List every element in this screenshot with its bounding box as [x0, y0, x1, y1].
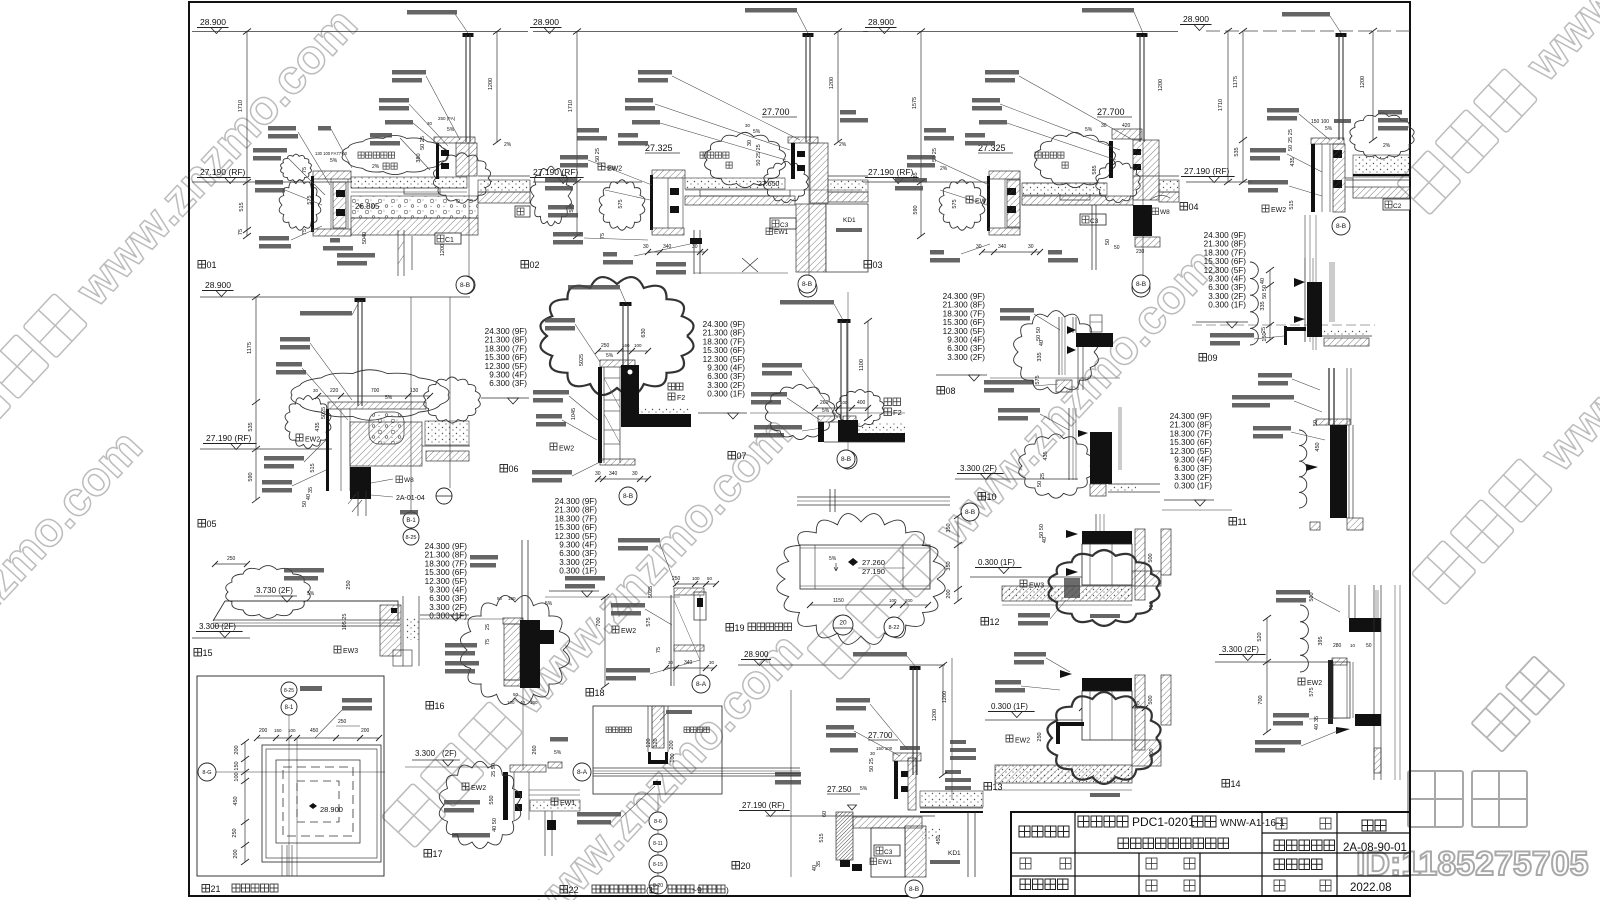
svg-text:WNW-A1-16-1: WNW-A1-16-1 [1220, 818, 1285, 829]
svg-text:09: 09 [1208, 353, 1218, 363]
svg-text:18.300 (7F): 18.300 (7F) [555, 514, 598, 523]
svg-text:8-B: 8-B [802, 281, 812, 288]
svg-text:28.900: 28.900 [320, 805, 343, 814]
svg-text:18.300 (7F): 18.300 (7F) [1204, 248, 1247, 257]
svg-text:6.300 (3F): 6.300 (3F) [559, 549, 597, 558]
svg-text:8-G: 8-G [202, 770, 211, 776]
svg-text:40: 40 [1042, 537, 1048, 543]
svg-text:700: 700 [1258, 695, 1264, 704]
svg-text:8-B: 8-B [841, 456, 851, 463]
svg-text:28.900: 28.900 [200, 17, 226, 27]
svg-text:150: 150 [274, 728, 282, 733]
svg-text:12.300 (5F): 12.300 (5F) [485, 362, 528, 371]
svg-text:3.300 (2F): 3.300 (2F) [559, 558, 597, 567]
svg-text:535: 535 [248, 422, 254, 431]
svg-text:435: 435 [1290, 157, 1296, 166]
svg-text:130: 130 [410, 388, 419, 394]
svg-text:50 50: 50 50 [1036, 327, 1042, 341]
svg-text:700: 700 [371, 388, 380, 394]
svg-text:KD1: KD1 [948, 850, 961, 857]
svg-text:24.300 (9F): 24.300 (9F) [425, 542, 468, 551]
svg-text:1710: 1710 [238, 100, 244, 112]
svg-text:30: 30 [668, 660, 674, 665]
svg-text:26.805: 26.805 [355, 202, 380, 211]
svg-text:28.900: 28.900 [1183, 14, 1209, 24]
svg-text:3.300 (2F): 3.300 (2F) [707, 381, 745, 390]
svg-text:335: 335 [1037, 352, 1043, 361]
svg-text:100: 100 [507, 700, 515, 705]
svg-text:50: 50 [707, 576, 713, 581]
svg-text:1175: 1175 [247, 342, 253, 354]
svg-text:0.300 (1F): 0.300 (1F) [991, 702, 1028, 711]
svg-text:02: 02 [530, 260, 540, 270]
svg-text:28.900: 28.900 [744, 650, 769, 659]
svg-text:EW2: EW2 [305, 437, 320, 444]
svg-text:W8: W8 [1160, 209, 1170, 216]
svg-text:PDC1-0201: PDC1-0201 [1132, 815, 1195, 829]
svg-text:27.190 (RF): 27.190 (RF) [533, 167, 579, 177]
svg-text:0.300 (1F): 0.300 (1F) [978, 558, 1015, 567]
svg-text:250: 250 [601, 343, 610, 349]
svg-text:): ) [726, 885, 729, 895]
svg-text:5%: 5% [606, 353, 614, 359]
svg-text:15.300 (6F): 15.300 (6F) [943, 318, 986, 327]
svg-text:8-B: 8-B [623, 493, 633, 500]
svg-text:515: 515 [310, 463, 316, 472]
svg-text:15.300 (6F): 15.300 (6F) [1204, 257, 1247, 266]
svg-text:515: 515 [1289, 200, 1295, 209]
svg-text:6.300 (3F): 6.300 (3F) [489, 379, 527, 388]
svg-text:280: 280 [1333, 643, 1342, 649]
svg-text:400: 400 [857, 400, 866, 406]
svg-text:250: 250 [232, 828, 238, 837]
svg-text:5%: 5% [1085, 127, 1093, 133]
svg-text:250: 250 [227, 556, 236, 562]
svg-text:3.300 (2F): 3.300 (2F) [960, 464, 997, 473]
svg-text:1100: 1100 [859, 359, 865, 371]
svg-text:40: 40 [1314, 724, 1320, 730]
svg-text:EW2: EW2 [471, 785, 486, 792]
svg-text:220: 220 [330, 388, 339, 394]
svg-text:24.300 (9F): 24.300 (9F) [555, 497, 598, 506]
svg-text:27.190 (RF): 27.190 (RF) [742, 801, 785, 810]
svg-text:24.300 (9F): 24.300 (9F) [485, 327, 528, 336]
svg-text:575: 575 [1035, 375, 1041, 384]
svg-text:5%: 5% [829, 556, 837, 562]
svg-text:0.300 (1F): 0.300 (1F) [1174, 482, 1212, 491]
svg-text:9.300 (4F): 9.300 (4F) [429, 586, 467, 595]
svg-text:340: 340 [998, 244, 1007, 250]
svg-text:50: 50 [1366, 643, 1372, 649]
svg-text:6.300 (3F): 6.300 (3F) [1208, 283, 1246, 292]
svg-text:07: 07 [737, 451, 747, 461]
svg-text:19: 19 [735, 623, 745, 633]
svg-text:50: 50 [1114, 245, 1120, 251]
svg-text:28.900: 28.900 [868, 17, 894, 27]
svg-text:EW1: EW1 [878, 859, 892, 866]
svg-text:515: 515 [819, 833, 825, 842]
svg-text:40: 40 [306, 494, 312, 500]
svg-text:03: 03 [873, 260, 883, 270]
svg-text:60: 60 [822, 811, 828, 817]
svg-text:590: 590 [248, 472, 254, 481]
svg-text:0.300 (1F): 0.300 (1F) [707, 390, 745, 399]
svg-text:200: 200 [361, 728, 370, 734]
svg-text:2%: 2% [839, 142, 847, 148]
svg-text:20: 20 [839, 620, 847, 627]
svg-text:150 100: 150 100 [876, 746, 893, 751]
svg-text:3.300 (2F): 3.300 (2F) [1174, 473, 1212, 482]
svg-text:35: 35 [308, 487, 314, 493]
svg-text:75: 75 [238, 229, 244, 235]
svg-text:12.300 (5F): 12.300 (5F) [1170, 447, 1213, 456]
svg-text:9.300 (4F): 9.300 (4F) [1174, 456, 1212, 465]
svg-text:50 25: 50 25 [869, 758, 875, 772]
svg-text:(1: (1 [646, 885, 654, 895]
svg-text:22: 22 [569, 885, 579, 895]
svg-text:3.300 (2F): 3.300 (2F) [1222, 645, 1259, 654]
svg-text:500: 500 [1148, 695, 1154, 704]
svg-text:28.900: 28.900 [205, 280, 231, 290]
svg-text:200: 200 [259, 728, 268, 734]
svg-text:1200: 1200 [1158, 79, 1164, 91]
svg-text:EW2: EW2 [975, 199, 990, 206]
svg-text:630: 630 [641, 328, 647, 337]
svg-text:150: 150 [234, 761, 240, 770]
svg-text:9.300 (4F): 9.300 (4F) [489, 371, 527, 380]
svg-text:8-B: 8-B [965, 509, 975, 516]
svg-text:10: 10 [1350, 643, 1356, 648]
svg-text:585: 585 [1092, 165, 1098, 174]
svg-text:F2: F2 [677, 395, 685, 402]
svg-text:27.700: 27.700 [868, 731, 893, 740]
svg-text:18.300 (7F): 18.300 (7F) [703, 337, 746, 346]
svg-text:30: 30 [745, 123, 751, 128]
svg-text:KD1: KD1 [843, 217, 856, 224]
svg-text:16: 16 [435, 701, 445, 711]
svg-text:EW2: EW2 [559, 446, 574, 453]
svg-text:500: 500 [1148, 553, 1154, 562]
svg-text:590: 590 [913, 205, 919, 214]
svg-text:75: 75 [600, 233, 606, 239]
svg-text:0.300 (1F): 0.300 (1F) [1208, 301, 1246, 310]
svg-text:520: 520 [1257, 632, 1263, 641]
svg-text:3.300 (2F): 3.300 (2F) [947, 353, 985, 362]
svg-text:27.250: 27.250 [827, 785, 852, 794]
svg-text:350: 350 [946, 561, 952, 570]
svg-text:250: 250 [346, 580, 352, 589]
svg-text:2A-08-90-01: 2A-08-90-01 [1343, 842, 1407, 854]
svg-text:C3: C3 [884, 849, 893, 856]
svg-text:8-25: 8-25 [405, 535, 416, 541]
svg-text:130 100 FA77 60: 130 100 FA77 60 [315, 151, 348, 156]
svg-text:50: 50 [302, 501, 308, 507]
svg-text:250: 250 [1037, 732, 1043, 741]
svg-text:435: 435 [1043, 451, 1049, 460]
svg-text:450: 450 [233, 796, 239, 805]
svg-text:120: 120 [653, 738, 659, 747]
svg-text:50: 50 [1105, 239, 1111, 245]
svg-text:575: 575 [618, 199, 624, 208]
svg-text:450: 450 [936, 835, 942, 844]
svg-text:230: 230 [1136, 249, 1145, 255]
svg-text:0.300 (1F): 0.300 (1F) [559, 567, 597, 576]
svg-text:27.325: 27.325 [645, 143, 673, 153]
svg-text:395: 395 [1318, 636, 1324, 645]
svg-text:500: 500 [1309, 592, 1315, 601]
svg-text:15.300 (6F): 15.300 (6F) [555, 523, 598, 532]
svg-text:8-11: 8-11 [653, 841, 663, 847]
svg-text:575: 575 [646, 617, 652, 626]
svg-text:100: 100 [530, 700, 538, 705]
svg-text:28.900: 28.900 [533, 17, 559, 27]
svg-text:5%: 5% [860, 786, 868, 792]
svg-text:8-B: 8-B [1136, 281, 1146, 288]
svg-text:14: 14 [1231, 779, 1241, 789]
svg-text:10: 10 [987, 492, 997, 502]
svg-text:2%: 2% [504, 142, 512, 148]
svg-text:27.190 (RF): 27.190 (RF) [1184, 166, 1230, 176]
svg-text:30: 30 [595, 471, 601, 477]
svg-text:27.700: 27.700 [762, 107, 790, 117]
svg-text:12.300 (5F): 12.300 (5F) [555, 532, 598, 541]
svg-text:105 25: 105 25 [342, 614, 348, 631]
svg-text:6.300 (3F): 6.300 (3F) [1174, 464, 1212, 473]
svg-text:15.300 (6F): 15.300 (6F) [703, 346, 746, 355]
svg-text:01: 01 [207, 260, 217, 270]
svg-text:8-1: 8-1 [285, 705, 294, 711]
svg-text:15: 15 [203, 648, 213, 658]
svg-text:11: 11 [1238, 517, 1247, 527]
svg-text:12: 12 [990, 617, 1000, 627]
svg-text:5%: 5% [330, 158, 338, 164]
svg-text:B-1: B-1 [406, 518, 416, 524]
svg-text:27.190 (RF): 27.190 (RF) [868, 167, 914, 177]
svg-text:3.730 (2F): 3.730 (2F) [256, 586, 293, 595]
svg-text:9.300 (4F): 9.300 (4F) [559, 541, 597, 550]
svg-text:20: 20 [741, 861, 751, 871]
svg-text:1200: 1200 [440, 244, 446, 256]
svg-text:5025: 5025 [648, 586, 654, 598]
svg-text:700: 700 [596, 617, 602, 626]
svg-text:75: 75 [656, 647, 662, 653]
svg-text:21.300 (8F): 21.300 (8F) [1170, 421, 1213, 430]
svg-text:18.300 (7F): 18.300 (7F) [943, 309, 986, 318]
svg-text:EW2: EW2 [1271, 207, 1286, 214]
svg-text:C3: C3 [780, 222, 789, 229]
svg-text:340: 340 [609, 471, 618, 477]
svg-text:30: 30 [313, 388, 319, 393]
svg-text:27.190 (RF): 27.190 (RF) [200, 167, 246, 177]
svg-text:1200: 1200 [488, 78, 494, 90]
svg-text:1150: 1150 [833, 598, 844, 604]
svg-text:18.300 (7F): 18.300 (7F) [485, 344, 528, 353]
svg-text:160: 160 [622, 343, 630, 348]
svg-text:1045: 1045 [571, 408, 577, 420]
svg-text:25: 25 [1040, 473, 1046, 479]
svg-text:2%: 2% [940, 166, 948, 172]
svg-text:17: 17 [433, 849, 443, 859]
svg-text:6.300 (3F): 6.300 (3F) [429, 594, 467, 603]
svg-text:25 25: 25 25 [1288, 129, 1294, 143]
svg-text:30: 30 [747, 140, 753, 146]
svg-text:18.300 (7F): 18.300 (7F) [1170, 429, 1213, 438]
svg-text:25: 25 [485, 624, 491, 630]
svg-text:5%: 5% [1325, 126, 1333, 132]
svg-text:24.300 (9F): 24.300 (9F) [1204, 231, 1247, 240]
svg-text:260: 260 [532, 745, 538, 754]
svg-text:5%: 5% [385, 395, 393, 401]
svg-text:260: 260 [820, 400, 829, 406]
svg-text:50 25: 50 25 [595, 148, 601, 162]
svg-text:450: 450 [310, 728, 319, 734]
svg-text:100: 100 [840, 400, 848, 405]
svg-text:5%: 5% [753, 129, 761, 135]
svg-text:06: 06 [509, 464, 519, 474]
svg-text:30: 30 [692, 244, 698, 250]
svg-text:8-22: 8-22 [888, 625, 899, 631]
svg-text:100: 100 [634, 343, 642, 348]
svg-text:C2: C2 [1393, 203, 1402, 210]
svg-text:24.300 (9F): 24.300 (9F) [703, 320, 746, 329]
svg-text:8-25: 8-25 [284, 688, 294, 694]
svg-text:50 25 25: 50 25 25 [756, 144, 762, 165]
svg-text:75: 75 [485, 639, 491, 645]
svg-text:27.700: 27.700 [1097, 107, 1125, 117]
svg-text:C3: C3 [1090, 218, 1099, 225]
svg-text:250 (FA): 250 (FA) [438, 116, 456, 121]
svg-text:50: 50 [1037, 481, 1043, 487]
svg-text:50: 50 [1313, 420, 1319, 426]
svg-text:1710: 1710 [1218, 99, 1224, 111]
svg-text:21.300 (8F): 21.300 (8F) [555, 506, 598, 515]
svg-text:EW2: EW2 [1015, 738, 1030, 745]
svg-text:21.300 (8F): 21.300 (8F) [703, 329, 746, 338]
svg-text:12.300 (5F): 12.300 (5F) [943, 327, 986, 336]
svg-text:335: 335 [1260, 301, 1266, 310]
svg-text:18: 18 [595, 688, 605, 698]
svg-text:535: 535 [1234, 147, 1240, 156]
svg-text:5%: 5% [554, 750, 562, 756]
svg-text:200: 200 [233, 849, 239, 858]
svg-text:30: 30 [643, 244, 649, 250]
svg-text:150 100: 150 100 [1311, 119, 1329, 125]
svg-text:W8: W8 [404, 477, 414, 484]
svg-text:8-B: 8-B [460, 282, 470, 289]
svg-text:EW2: EW2 [1307, 680, 1322, 687]
svg-text:EW1: EW1 [560, 800, 575, 807]
svg-text:100: 100 [234, 772, 240, 781]
svg-text:5%: 5% [822, 408, 830, 414]
svg-text:2%: 2% [372, 164, 380, 170]
svg-text:3.300: 3.300 [415, 749, 436, 758]
svg-text:12.300 (5F): 12.300 (5F) [703, 355, 746, 364]
svg-text:575: 575 [952, 199, 958, 208]
svg-text:2%: 2% [1383, 143, 1391, 149]
svg-text:5040: 5040 [362, 232, 368, 244]
svg-text:8-6: 8-6 [654, 819, 662, 825]
svg-text:8-A: 8-A [696, 681, 707, 688]
svg-text:100: 100 [670, 753, 676, 762]
svg-text:40: 40 [812, 865, 818, 871]
svg-text:3.300 (2F): 3.300 (2F) [1208, 292, 1246, 301]
svg-text:27.260: 27.260 [862, 558, 885, 567]
svg-text:75: 75 [302, 167, 308, 173]
svg-text:18.300 (7F): 18.300 (7F) [425, 559, 468, 568]
svg-text:420: 420 [1122, 123, 1131, 129]
svg-text:~9: ~9 [692, 885, 702, 895]
svg-text:40 50: 40 50 [492, 818, 498, 832]
svg-text:40: 40 [1260, 278, 1266, 284]
svg-text:8-A: 8-A [577, 769, 588, 776]
svg-text:27.650: 27.650 [758, 181, 780, 188]
svg-text:21.300 (8F): 21.300 (8F) [1204, 240, 1247, 249]
svg-text:5025: 5025 [579, 354, 585, 366]
svg-text:30: 30 [632, 471, 638, 477]
svg-text:EW2: EW2 [607, 166, 622, 173]
svg-text:9.300 (4F): 9.300 (4F) [707, 364, 745, 373]
svg-text:575: 575 [1309, 687, 1315, 696]
svg-text:2022.08: 2022.08 [1350, 882, 1392, 894]
svg-text:75: 75 [302, 229, 308, 235]
svg-text:1575: 1575 [912, 97, 918, 109]
svg-text:35: 35 [1314, 716, 1320, 722]
svg-text:27.190: 27.190 [862, 567, 885, 576]
svg-text:30: 30 [1028, 244, 1034, 250]
svg-text:550: 550 [489, 795, 495, 804]
svg-text:200: 200 [669, 740, 675, 749]
svg-text:8-15: 8-15 [653, 862, 663, 868]
svg-text:50: 50 [513, 692, 519, 697]
svg-text:EW1: EW1 [774, 229, 788, 236]
svg-text:515: 515 [239, 202, 245, 211]
svg-text:150: 150 [1262, 332, 1268, 341]
svg-text:100: 100 [692, 576, 700, 581]
svg-text:9.300 (4F): 9.300 (4F) [947, 336, 985, 345]
svg-text:08: 08 [946, 386, 956, 396]
svg-text:1200: 1200 [829, 77, 835, 89]
svg-text:5%: 5% [307, 591, 315, 597]
svg-text:50 50: 50 50 [1262, 285, 1268, 299]
svg-text:15.300 (6F): 15.300 (6F) [1170, 438, 1213, 447]
svg-text:30: 30 [427, 121, 433, 126]
svg-text:1710: 1710 [568, 100, 574, 112]
svg-text:EW3: EW3 [343, 648, 358, 655]
svg-text:350: 350 [946, 523, 952, 532]
svg-text:12.300 (5F): 12.300 (5F) [1204, 266, 1247, 275]
svg-text:13: 13 [993, 782, 1003, 792]
svg-text:8-B: 8-B [909, 886, 919, 893]
svg-text:250: 250 [338, 719, 347, 725]
svg-text:C1: C1 [445, 237, 454, 244]
svg-text:30: 30 [709, 660, 715, 665]
svg-text:50 25: 50 25 [420, 136, 426, 150]
svg-text:50: 50 [1288, 145, 1294, 151]
svg-text:2A-01-04: 2A-01-04 [396, 495, 425, 502]
svg-text:1200: 1200 [932, 709, 938, 721]
svg-text:15.300 (6F): 15.300 (6F) [425, 568, 468, 577]
svg-text:27.190 (RF): 27.190 (RF) [206, 433, 252, 443]
svg-text:21.300 (8F): 21.300 (8F) [425, 551, 468, 560]
svg-text:21.300 (8F): 21.300 (8F) [485, 336, 528, 345]
svg-text:200: 200 [946, 589, 952, 598]
svg-text:3.300 (2F): 3.300 (2F) [429, 603, 467, 612]
svg-text:12.300 (5F): 12.300 (5F) [425, 577, 468, 586]
svg-text:21.300 (8F): 21.300 (8F) [943, 301, 986, 310]
svg-text:40: 40 [1039, 340, 1045, 346]
svg-text:6.300 (3F): 6.300 (3F) [707, 372, 745, 381]
svg-text:05: 05 [207, 519, 217, 529]
